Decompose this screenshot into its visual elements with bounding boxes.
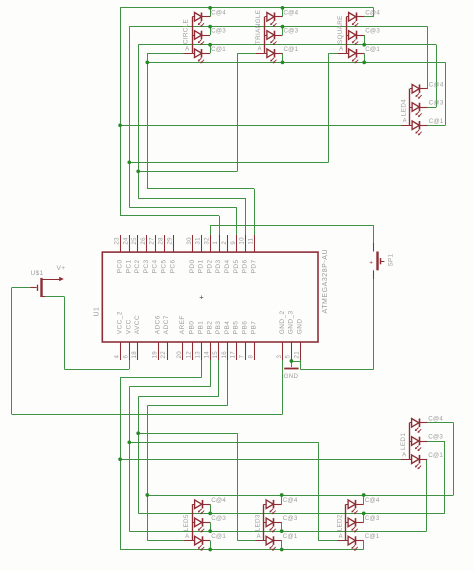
junction dot SQUARE C@1 — [362, 61, 366, 65]
wire SQUARE C@4 loop down — [373, 8, 375, 17]
wire LED4 C@4 drop — [427, 27, 429, 89]
svg-text:A: A — [185, 534, 189, 540]
svg-text:A: A — [339, 534, 343, 540]
svg-text:TRIANGLE: TRIANGLE — [255, 10, 262, 44]
wire GND to SP1 horizontal — [300, 369, 374, 371]
LED element LED5 C@3 — [195, 518, 202, 527]
pin 6 VCC of U1 — [129, 342, 131, 360]
wire PB4 left column — [147, 406, 149, 541]
svg-text:C@4: C@4 — [428, 415, 443, 422]
pin 22 ADC7 of U1 — [167, 342, 169, 360]
svg-text:C@1: C@1 — [284, 46, 299, 53]
wire H5 bus C@1 row — [147, 62, 445, 64]
wire LED4 C@3 drop — [436, 45, 438, 107]
LED package LED4 — [409, 89, 411, 126]
pin 4 VCC_2 of U1 — [120, 342, 122, 360]
wire CIRCLE C@3 riser — [210, 27, 212, 35]
svg-text:C@4: C@4 — [283, 497, 298, 504]
svg-text:GND: GND — [296, 319, 303, 335]
wire PB2 horizontal to left column — [129, 386, 210, 388]
LED element LED5 C@4 — [195, 500, 202, 509]
pin 27 PC4 of U1 — [155, 235, 157, 252]
wire VCC pin riser — [129, 360, 131, 369]
junction dot TRIANGLE C@1 — [281, 61, 285, 65]
svg-text:PC4: PC4 — [152, 259, 159, 273]
wire VCC horizontal — [64, 369, 129, 371]
wire PB4 riser — [227, 360, 229, 406]
LED element TRIANGLE C@1 — [267, 49, 274, 58]
svg-text:PD2: PD2 — [206, 259, 213, 273]
wire V4 vertical — [147, 53, 149, 189]
junction dot PB2/LED2-A — [127, 440, 131, 444]
pin 19 ADC6 of U1 — [158, 342, 160, 360]
svg-text:26: 26 — [140, 237, 147, 245]
svg-text:25: 25 — [131, 237, 138, 245]
pin 5 GND_3 of U1 — [291, 342, 293, 360]
svg-text:PC3: PC3 — [143, 259, 150, 273]
wire PB3 riser — [218, 360, 220, 397]
svg-text:PD6: PD6 — [242, 259, 249, 273]
svg-text:PB2: PB2 — [206, 321, 213, 335]
wire LED1 C@3 stub link — [427, 441, 445, 443]
svg-text:PB6: PB6 — [242, 321, 249, 335]
LED element LED2 C@1 — [348, 536, 355, 545]
wire net PD5 riser — [236, 207, 238, 235]
LED element TRIANGLE C@4 — [267, 13, 274, 22]
svg-text:C@1: C@1 — [211, 46, 226, 53]
svg-text:16: 16 — [221, 351, 228, 359]
svg-text:7: 7 — [239, 355, 246, 359]
svg-text:29: 29 — [166, 237, 173, 245]
svg-text:GND_3: GND_3 — [288, 310, 295, 334]
wire U$1 negative to far-left vertical — [12, 287, 31, 289]
pin 13 PB1 of U1 — [201, 342, 203, 360]
pin 21 GND of U1 — [300, 342, 302, 360]
svg-text:PD1: PD1 — [198, 259, 205, 273]
svg-text:PC2: PC2 — [134, 259, 141, 273]
pin 9 PD5 of U1 — [236, 235, 238, 252]
LED element LED4 C@3 — [412, 103, 419, 112]
svg-text:C@3: C@3 — [211, 515, 226, 522]
wire PB2 riser — [210, 360, 212, 387]
pin 18 AVCC of U1 — [137, 342, 139, 360]
svg-text:U$1: U$1 — [31, 270, 44, 277]
wire LED1 C@4 stub link — [427, 422, 454, 424]
LED package SQUARE — [346, 17, 348, 54]
wire GND_2 horizontal — [12, 414, 283, 416]
svg-text:1: 1 — [212, 241, 219, 245]
wire LED2 C@3 riser — [363, 513, 365, 522]
LED element SQUARE C@4 — [349, 13, 356, 22]
svg-text:PB5: PB5 — [233, 321, 240, 335]
svg-text:PB1: PB1 — [198, 321, 205, 335]
pin 32 PD2 of U1 — [210, 235, 212, 252]
svg-text:PC6: PC6 — [169, 259, 176, 273]
LED element TRIANGLE C@3 — [267, 31, 274, 40]
battery U$1 bottom pin — [41, 296, 45, 298]
battery U$1 left pin — [30, 287, 36, 289]
LED element CIRCLE C@1 — [195, 49, 202, 58]
LED element SQUARE C@1 — [349, 49, 356, 58]
V+ arrow — [59, 277, 64, 282]
junction dot PB4/bus0 — [145, 493, 149, 497]
wire VCC vertical — [64, 297, 66, 370]
wire V3 vertical — [138, 45, 140, 198]
wire LED4 C@1 drop — [445, 62, 447, 125]
svg-text:GND_2: GND_2 — [279, 310, 286, 334]
pin 29 PC6 of U1 — [173, 235, 175, 252]
svg-text:A: A — [257, 47, 261, 53]
wire LED3 A branch horizontal — [138, 433, 237, 435]
svg-text:C@1: C@1 — [211, 533, 226, 540]
LED element LED2 C@4 — [348, 500, 355, 509]
wire LED2 A branch horizontal — [129, 442, 318, 444]
svg-text:CIRCLE: CIRCLE — [183, 19, 190, 44]
svg-text:C@4: C@4 — [365, 9, 380, 16]
svg-text:SP1: SP1 — [388, 253, 395, 266]
svg-text:PC0: PC0 — [117, 259, 124, 273]
wire LED2 C@1 riser — [363, 541, 365, 550]
svg-text:12: 12 — [186, 351, 193, 359]
svg-text:PC5: PC5 — [161, 259, 168, 273]
pin 7 PB6 of U1 — [245, 342, 247, 360]
junction dot V3 branch — [136, 169, 140, 173]
LED element LED5 C@1 — [195, 536, 202, 545]
LED element LED1 C@3 — [412, 437, 419, 446]
wire GND pin drop — [300, 360, 302, 369]
LED package LED5 — [192, 504, 194, 540]
junction dot LED3 C@3 — [280, 529, 284, 533]
op-amp U1 ATMEGA328P-AU body — [102, 252, 318, 342]
svg-text:VCC_2: VCC_2 — [117, 311, 124, 334]
svg-text:A: A — [402, 453, 406, 459]
pin 16 PB4 of U1 — [227, 342, 229, 360]
junction dot TRIANGLE C@3 — [281, 25, 285, 29]
wire net PD5 horizontal to V2 — [129, 207, 236, 209]
wire CIRCLE C@1 riser — [210, 45, 212, 54]
wire LED5 C@4 drop — [210, 504, 212, 513]
wire TRIANGLE A horizontal — [237, 53, 256, 55]
ground symbol — [284, 368, 298, 370]
svg-text:VCC: VCC — [125, 319, 132, 334]
wire H2 bus C@3 row — [129, 26, 427, 28]
wire LED2 A horizontal — [318, 540, 337, 542]
pin 11 PD7 of U1 — [254, 235, 256, 252]
pin 31 PD1 of U1 — [201, 235, 203, 252]
svg-text:19: 19 — [151, 351, 158, 359]
wire SP1 top drop — [373, 225, 375, 243]
svg-text:4: 4 — [114, 355, 121, 359]
wire U$1 plus to VCC drop — [45, 296, 64, 298]
wire H1 bus C@4 row — [120, 7, 374, 9]
wire SQUARE A horizontal — [329, 53, 338, 55]
svg-text:LED1: LED1 — [400, 433, 407, 450]
wire far-left vertical — [11, 288, 13, 414]
wire net PD7 riser — [254, 189, 256, 235]
battery U$1 minus plate — [37, 285, 39, 291]
svg-text:22: 22 — [160, 351, 167, 359]
svg-text:ADC7: ADC7 — [163, 315, 170, 334]
wire TRIANGLE C@1 drop — [282, 53, 284, 62]
svg-text:C@1: C@1 — [429, 118, 444, 125]
LED element LED3 C@4 — [266, 500, 273, 509]
junction dot CIRCLE C@4 — [208, 6, 212, 10]
LED element LED3 C@3 — [266, 518, 273, 527]
LED element LED2 C@3 — [348, 518, 355, 527]
svg-text:C@3: C@3 — [429, 100, 444, 107]
svg-text:PD7: PD7 — [250, 259, 257, 273]
svg-text:PB7: PB7 — [250, 321, 257, 335]
svg-text:24: 24 — [122, 237, 129, 245]
wire net PD2 riser — [210, 225, 212, 235]
wire LED1 C@1 drop — [426, 459, 428, 531]
wire PD2 to SP1 horizontal — [210, 225, 374, 227]
svg-text:18: 18 — [131, 351, 138, 359]
junction dot V1/LED4-A — [118, 123, 122, 127]
junction dot TRIANGLE C@4 — [281, 6, 285, 10]
junction dot LED3 C@4 — [280, 493, 284, 497]
junction dot LED5 C@4 — [208, 512, 212, 516]
wire SQUARE C@4 loop left — [357, 16, 374, 18]
svg-text:32: 32 — [203, 237, 210, 245]
pin 25 PC2 of U1 — [137, 235, 139, 252]
battery U$1 plus plate — [40, 278, 42, 297]
LED element LED4 C@4 — [412, 84, 419, 93]
speaker SP1 top pin — [373, 243, 375, 252]
svg-text:C@3: C@3 — [365, 515, 380, 522]
svg-text:31: 31 — [195, 237, 202, 245]
junction dot V4/H5 — [145, 61, 149, 65]
svg-text:V+: V+ — [57, 265, 66, 272]
wire net PD3 riser — [219, 216, 221, 235]
svg-text:PD0: PD0 — [189, 259, 196, 273]
pin 3 GND_2 of U1 — [282, 342, 284, 360]
wire LED4 A branch — [120, 125, 401, 127]
svg-text:SQUARE: SQUARE — [337, 15, 344, 44]
LED package LED1 — [409, 423, 411, 459]
svg-text:GND: GND — [284, 373, 299, 380]
svg-text:A: A — [339, 47, 343, 53]
wire TRIANGLE A branch horizontal — [138, 171, 237, 173]
wire SQUARE C@3 drop — [364, 35, 366, 45]
wire V2 vertical — [129, 27, 131, 208]
LED element SQUARE C@3 — [349, 31, 356, 40]
svg-text:C@1: C@1 — [365, 533, 380, 540]
svg-text:5: 5 — [285, 355, 292, 359]
LED package TRIANGLE — [264, 17, 266, 54]
svg-text:LED3: LED3 — [254, 514, 261, 531]
svg-text:14: 14 — [203, 351, 210, 359]
pin 20 AREF of U1 — [182, 342, 184, 360]
svg-text:20: 20 — [176, 351, 183, 359]
svg-text:A: A — [403, 119, 407, 125]
wire PB3 horizontal to left column — [138, 396, 219, 398]
wire TRIANGLE A vertical — [237, 53, 239, 171]
svg-text:C@3: C@3 — [283, 515, 298, 522]
svg-text:PB4: PB4 — [224, 321, 231, 335]
wire PB4 horizontal to left column — [147, 405, 227, 407]
speaker SP1 small plate — [380, 258, 382, 264]
pin 1 PD3 of U1 — [219, 235, 221, 252]
svg-text:C@1: C@1 — [365, 46, 380, 53]
wire SP1 bottom drop — [373, 279, 375, 369]
wire LED2 A vertical — [318, 442, 320, 540]
svg-text:C@3: C@3 — [284, 28, 299, 35]
wire net PD6 riser — [245, 198, 247, 235]
svg-text:U1: U1 — [94, 307, 101, 317]
pin 8 PB7 of U1 — [254, 342, 256, 360]
wire bus3 C@1 row — [120, 549, 364, 551]
wire LED3 C@4 riser — [281, 495, 283, 504]
LED package CIRCLE — [192, 17, 194, 54]
wire GND_3 to symbol — [291, 360, 293, 367]
wire CIRCLE C@4 riser — [210, 8, 212, 17]
pin 2 PD4 of U1 — [227, 235, 229, 252]
svg-text:LED4: LED4 — [400, 99, 407, 116]
svg-text:PD3: PD3 — [215, 259, 222, 273]
pin 23 PC0 of U1 — [120, 235, 122, 252]
junction dot LED5 C@3 — [208, 529, 212, 533]
wire bus1 row — [138, 513, 445, 515]
LED element LED3 C@1 — [266, 536, 273, 545]
svg-text:C@3: C@3 — [428, 434, 443, 441]
junction dot PB3/LED3-A — [136, 431, 140, 435]
wire PB1 horizontal to left column — [120, 377, 201, 379]
wire bus2 C@3 row — [129, 531, 426, 533]
svg-text:15: 15 — [212, 351, 219, 359]
svg-text:PD4: PD4 — [224, 259, 231, 273]
wire LED5 A horizontal — [147, 540, 183, 542]
wire GND_2 riser — [282, 360, 284, 414]
svg-text:AVCC: AVCC — [134, 315, 141, 334]
speaker SP1 bottom pin — [373, 270, 375, 279]
junction dot V2 branch — [127, 160, 131, 164]
svg-text:ATMEGA328P-AU: ATMEGA328P-AU — [322, 249, 329, 314]
svg-text:C@4: C@4 — [365, 497, 380, 504]
wire GND_3 / GND link — [291, 361, 300, 363]
wire PB1 left column — [120, 378, 122, 550]
wire PB3 left column — [138, 397, 140, 514]
junction dot LED3 C@1 — [280, 548, 284, 552]
pin 26 PC3 of U1 — [146, 235, 148, 252]
pin 12 PB0 of U1 — [192, 342, 194, 360]
wire net PD3 horizontal to V1 — [120, 215, 219, 217]
wire SQUARE A vertical — [328, 53, 330, 162]
svg-text:11: 11 — [247, 237, 254, 244]
junction dot LED2 C@3 — [362, 512, 366, 516]
svg-text:10: 10 — [239, 237, 246, 245]
junction dot GND_3 — [290, 359, 294, 363]
wire TRIANGLE C@3 riser — [282, 27, 284, 35]
wire LED1 A branch — [120, 459, 401, 461]
svg-text:LED5: LED5 — [183, 514, 190, 531]
speaker SP1 stub — [381, 261, 385, 263]
wire LED5 C@1 drop — [210, 541, 212, 550]
wire LED1 C@4 riser — [453, 423, 455, 495]
svg-text:C@4: C@4 — [429, 81, 444, 88]
junction dot SQUARE C@3 — [362, 43, 366, 47]
svg-text:21: 21 — [293, 351, 300, 359]
svg-text:+: + — [199, 293, 204, 302]
junction dot CIRCLE C@3 — [208, 25, 212, 29]
wire SQUARE C@1 drop — [364, 53, 366, 62]
pin 14 PB2 of U1 — [210, 342, 212, 360]
svg-text:C@4: C@4 — [284, 9, 299, 16]
svg-text:8: 8 — [247, 355, 254, 359]
svg-text:3: 3 — [276, 355, 283, 359]
wire LED3 A horizontal — [237, 540, 255, 542]
wire net PD7 horizontal to V4 — [147, 188, 254, 190]
junction dot LED2 C@4 — [362, 493, 366, 497]
pin 30 PD0 of U1 — [192, 235, 194, 252]
svg-text:PD5: PD5 — [233, 259, 240, 273]
svg-text:PB0: PB0 — [189, 321, 196, 335]
svg-text:C@3: C@3 — [365, 28, 380, 35]
wire LED5 C@3 drop — [210, 522, 212, 531]
wire V1 vertical — [120, 8, 122, 216]
pin 24 PC1 of U1 — [129, 235, 131, 252]
battery U$1 V+ pin — [41, 279, 59, 281]
LED element LED1 C@4 — [412, 419, 419, 428]
svg-text:+: + — [369, 259, 373, 266]
svg-text:C@1: C@1 — [428, 452, 443, 459]
svg-text:9: 9 — [230, 241, 237, 245]
LED element CIRCLE C@4 — [195, 13, 202, 22]
junction dot LED5 C@1 — [208, 548, 212, 552]
junction dot CIRCLE C@1 — [208, 43, 212, 47]
wire SQUARE A branch horizontal — [129, 162, 328, 164]
wire PB2 left column — [129, 387, 131, 531]
pin 17 PB5 of U1 — [236, 342, 238, 360]
svg-text:27: 27 — [149, 237, 156, 245]
svg-text:AREF: AREF — [179, 315, 186, 334]
svg-text:2: 2 — [221, 241, 228, 245]
wire net PD6 horizontal to V3 — [138, 198, 245, 200]
wire bus0 C@4 row — [147, 495, 453, 497]
svg-text:C@3: C@3 — [211, 28, 226, 35]
svg-text:28: 28 — [158, 237, 165, 245]
wire TRIANGLE C@4 riser — [282, 8, 284, 17]
svg-text:PC1: PC1 — [125, 259, 132, 273]
pin 28 PC5 of U1 — [164, 235, 166, 252]
svg-text:6: 6 — [122, 355, 129, 359]
junction dot PB1/LED1-A — [118, 457, 122, 461]
svg-text:23: 23 — [114, 237, 121, 245]
svg-text:ADC6: ADC6 — [154, 315, 161, 334]
pin 15 PB3 of U1 — [218, 342, 220, 360]
LED element LED4 C@1 — [412, 121, 419, 130]
wire LED4 C@1 stub link — [428, 125, 446, 127]
svg-text:C@4: C@4 — [211, 497, 226, 504]
wire PB1 riser — [201, 360, 203, 378]
svg-text:13: 13 — [195, 351, 202, 359]
wire H3 bus — [138, 44, 436, 46]
speaker SP1 plate — [376, 252, 378, 271]
svg-text:C@1: C@1 — [283, 533, 298, 540]
wire LED1 C@3 drop — [444, 441, 446, 513]
wire LED3 C@3 drop — [281, 522, 283, 531]
svg-text:C@4: C@4 — [211, 9, 226, 16]
wire LED3 A vertical — [237, 433, 239, 540]
svg-text:PB3: PB3 — [215, 321, 222, 335]
wire LED4 C@3 stub link — [428, 107, 437, 109]
wire LED2 C@4 riser — [363, 495, 365, 504]
wire LED3 C@1 drop — [281, 541, 283, 550]
svg-text:30: 30 — [186, 237, 193, 245]
LED package LED2 — [345, 504, 347, 540]
wire H4 CIRCLE A — [147, 53, 183, 55]
LED element LED1 C@1 — [412, 455, 419, 464]
